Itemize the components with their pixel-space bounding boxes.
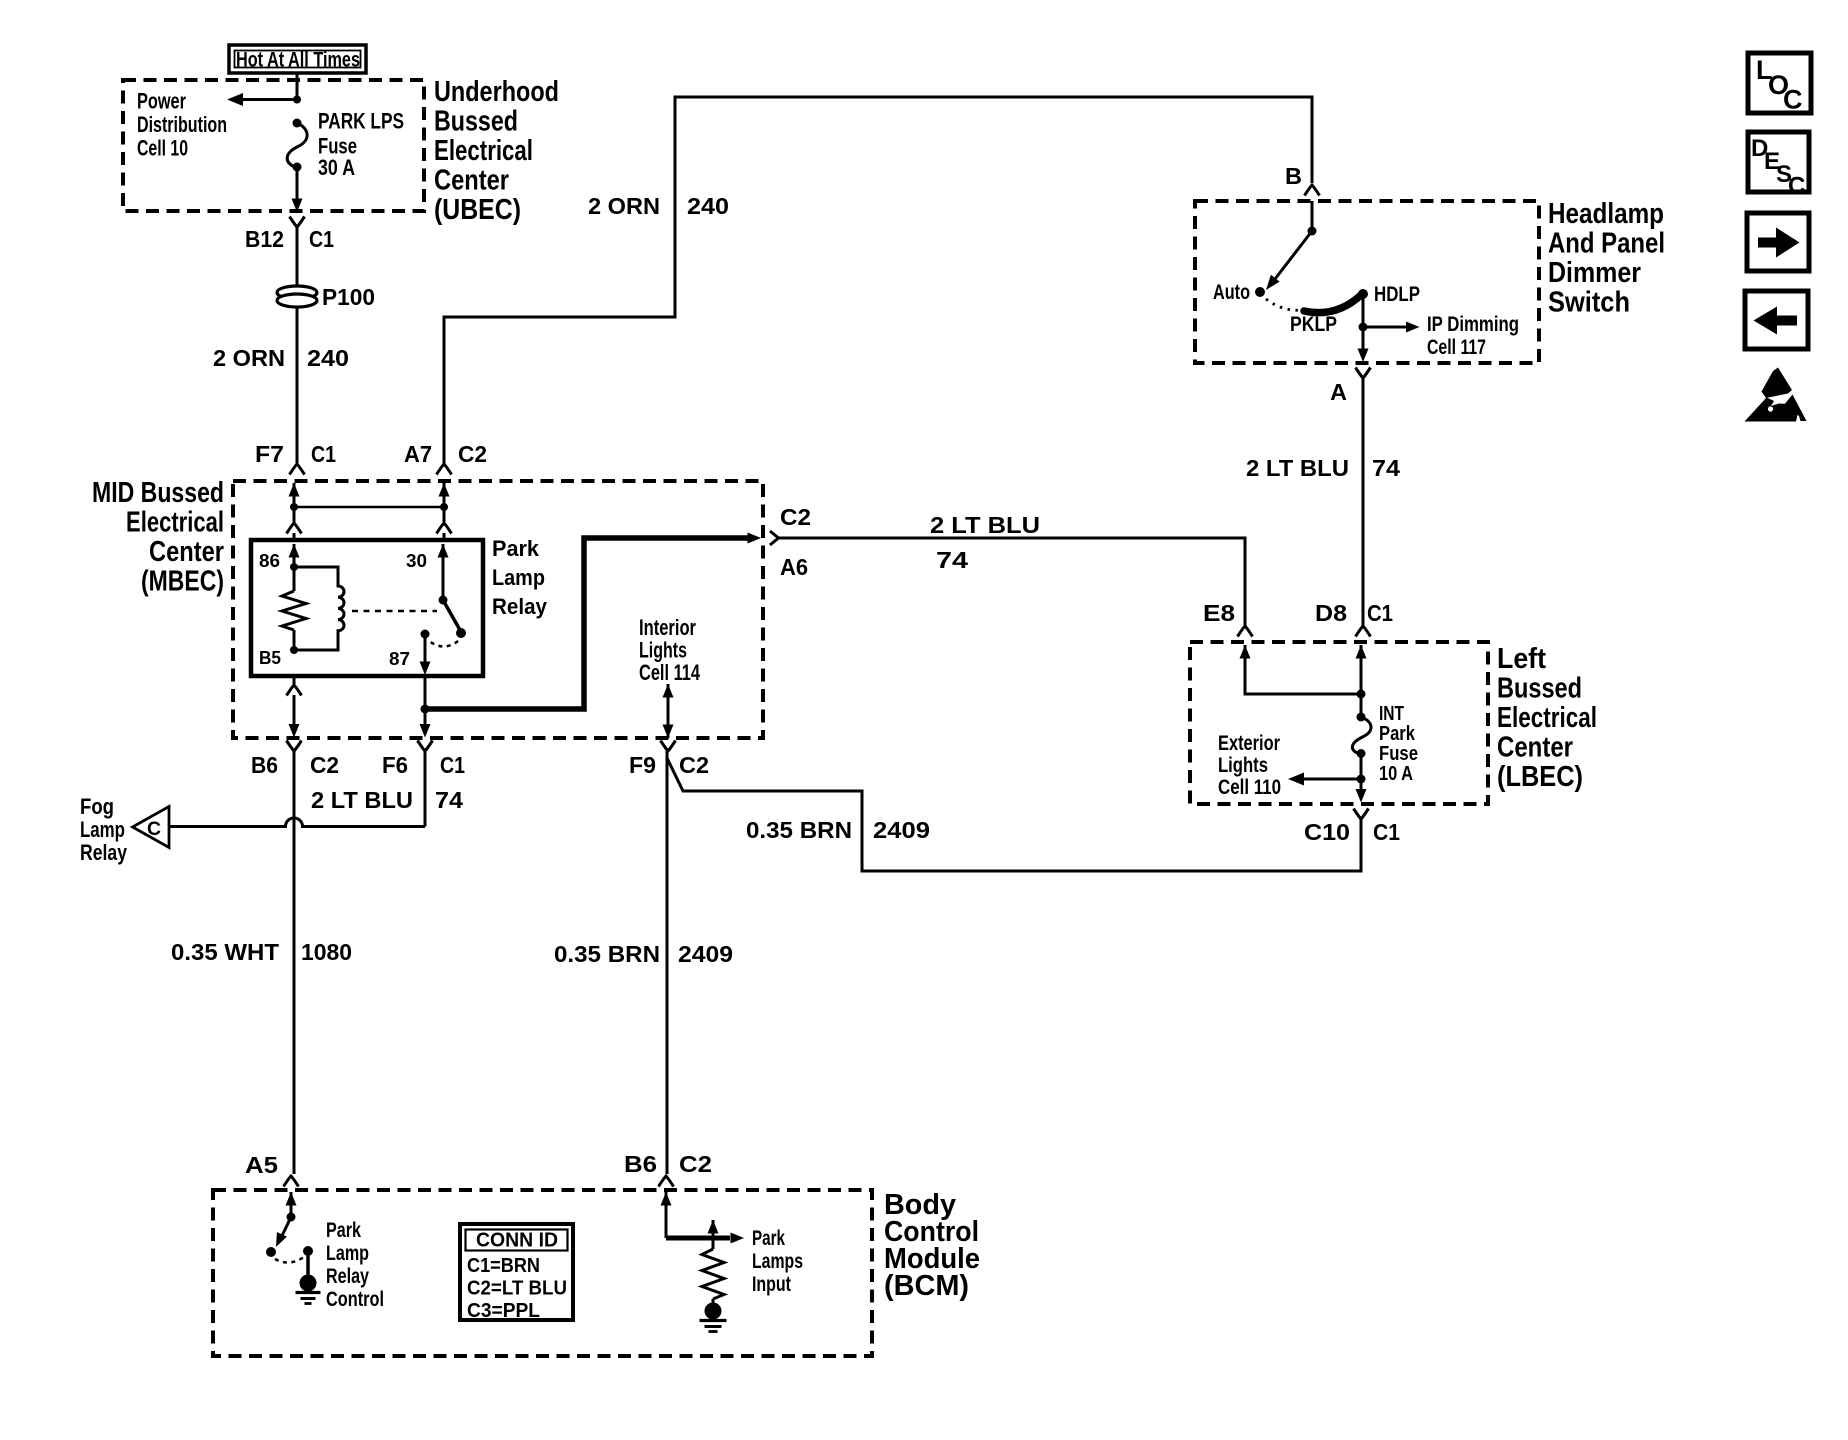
svg-text:Lamps: Lamps bbox=[752, 1250, 803, 1273]
svg-text:Hot At All Times: Hot At All Times bbox=[236, 49, 360, 72]
wire: 87 to MBEC exit bbox=[424, 676, 427, 727]
svg-text:C1: C1 bbox=[1373, 819, 1400, 845]
switch: relay armature bbox=[439, 596, 448, 605]
node: exterior lights junction bbox=[1357, 775, 1366, 784]
svg-text:Electrical: Electrical bbox=[126, 507, 224, 539]
svg-text:30: 30 bbox=[406, 550, 427, 571]
fuse: INT Park Fuse 10 A bbox=[1357, 713, 1366, 722]
node: E8/D8 junction bbox=[1357, 690, 1366, 699]
node: bus left bbox=[290, 503, 298, 511]
icon: ESD warning triangle bbox=[1762, 368, 1793, 399]
svg-text:Park: Park bbox=[492, 536, 540, 561]
svg-text:Distribution: Distribution bbox=[137, 112, 227, 137]
svg-text:240: 240 bbox=[687, 193, 729, 219]
wire: A7 entry to bus bbox=[439, 483, 450, 497]
wire: exit to C10 bbox=[1360, 753, 1363, 793]
svg-text:(BCM): (BCM) bbox=[884, 1270, 969, 1302]
node: bus right bbox=[440, 503, 448, 511]
node: switch pivot bbox=[1308, 227, 1317, 236]
connector F9/C2 below MBEC bbox=[661, 741, 676, 752]
wire: thick park lamps input feed bbox=[666, 1236, 730, 1241]
svg-text:Bussed: Bussed bbox=[1497, 673, 1582, 705]
svg-text:C1: C1 bbox=[309, 226, 334, 252]
svg-text:Relay: Relay bbox=[326, 1265, 369, 1288]
connector C10/C1 below LBEC bbox=[1354, 809, 1369, 820]
coil: relay coil winding bbox=[294, 567, 344, 650]
svg-text:A: A bbox=[1330, 379, 1347, 405]
terminal C: Fog Lamp Relay bbox=[133, 807, 170, 848]
svg-text:C2=LT BLU: C2=LT BLU bbox=[467, 1278, 567, 1300]
svg-text:Switch: Switch bbox=[1548, 287, 1630, 319]
icon: DESC button bbox=[1748, 132, 1809, 192]
svg-text:0.35 BRN: 0.35 BRN bbox=[746, 817, 852, 843]
wire: E8 entry bbox=[1240, 645, 1251, 659]
svg-text:30 A: 30 A bbox=[318, 155, 355, 180]
svg-text:B6: B6 bbox=[251, 752, 278, 778]
svg-text:Lights: Lights bbox=[639, 638, 687, 663]
splice P100 grommet bbox=[277, 286, 317, 299]
wire: F9 branch right 0.35 BRN 2409 to LBEC C10 bbox=[667, 758, 1361, 871]
svg-text:PKLP: PKLP bbox=[1290, 313, 1337, 336]
connector B6/C2 below MBEC bbox=[287, 741, 302, 752]
pin 86 bbox=[289, 544, 300, 558]
svg-text:Relay: Relay bbox=[492, 594, 548, 619]
svg-text:Control: Control bbox=[326, 1288, 384, 1311]
svg-text:C2: C2 bbox=[310, 752, 339, 778]
svg-text:MID Bussed: MID Bussed bbox=[92, 477, 224, 509]
svg-text:Exterior: Exterior bbox=[1218, 732, 1280, 755]
svg-text:2 ORN: 2 ORN bbox=[588, 193, 660, 219]
wire: dashed throw arc BCM bbox=[275, 1257, 304, 1263]
node: IP dimming junction bbox=[1359, 323, 1368, 332]
ground: park lamps input ground bbox=[705, 1303, 722, 1320]
wire: dashed actuation link bbox=[352, 610, 437, 613]
svg-text:C10: C10 bbox=[1304, 819, 1350, 845]
connector D8/C1 into LBEC bbox=[1356, 626, 1371, 637]
switch: thick PKLP-HDLP arc bbox=[1304, 295, 1361, 313]
resistor: park lamps input pull bbox=[702, 1249, 724, 1299]
svg-text:Cell 117: Cell 117 bbox=[1427, 336, 1486, 359]
wire: arrow to IP Dimming Cell 117 bbox=[1363, 326, 1406, 329]
wire: F9 down 0.35 BRN 2409 to BCM B6 bbox=[666, 751, 669, 1174]
svg-text:2 ORN: 2 ORN bbox=[213, 345, 285, 371]
wire: junction to fuse bbox=[1360, 694, 1363, 717]
node: open contact bbox=[266, 1247, 276, 1257]
svg-text:E8: E8 bbox=[1203, 600, 1235, 626]
svg-text:Fog: Fog bbox=[80, 794, 114, 819]
node: 87 junction to interior lights feed bbox=[421, 705, 430, 714]
svg-text:A5: A5 bbox=[245, 1152, 278, 1178]
svg-text:74: 74 bbox=[1372, 455, 1400, 481]
svg-text:C2: C2 bbox=[458, 441, 487, 467]
arrow: park lamps input sense up bbox=[708, 1220, 719, 1234]
svg-text:2 LT BLU: 2 LT BLU bbox=[311, 787, 413, 813]
svg-text:Input: Input bbox=[752, 1273, 791, 1296]
svg-text:Dimmer: Dimmer bbox=[1548, 257, 1641, 289]
svg-text:B12: B12 bbox=[245, 226, 284, 252]
connector A5 into BCM bbox=[284, 1176, 299, 1187]
svg-text:2409: 2409 bbox=[678, 941, 733, 967]
box: Body Control Module (BCM) dashed bbox=[213, 1190, 872, 1356]
wire: exit to A bbox=[1358, 349, 1369, 363]
connector B6/C2 into BCM bbox=[659, 1176, 674, 1187]
svg-text:C2: C2 bbox=[780, 504, 811, 530]
svg-text:F6: F6 bbox=[382, 752, 408, 778]
svg-text:10 A: 10 A bbox=[1379, 762, 1413, 785]
svg-text:240: 240 bbox=[307, 345, 349, 371]
svg-text:87: 87 bbox=[389, 648, 410, 669]
ground: relay control ground bbox=[300, 1275, 317, 1292]
svg-text:86: 86 bbox=[259, 550, 280, 571]
wire: 2 LT BLU 74 to LBEC E8 bbox=[779, 538, 1246, 626]
arrow: Interior Lights Cell 114 double arrow bbox=[663, 684, 674, 698]
icon: back arrow button bbox=[1745, 291, 1808, 349]
resistor: relay coil suppression resistor bbox=[293, 567, 296, 591]
connector B into headlamp switch bbox=[1305, 185, 1320, 196]
wire: dotted arc Auto to PKLP bbox=[1266, 299, 1303, 310]
wire: UBEC branch 2 ORN 240 to headlamp switch B bbox=[444, 97, 1312, 464]
wire: B to switch pivot bbox=[1311, 201, 1314, 231]
svg-text:Electrical: Electrical bbox=[434, 135, 533, 167]
icon: forward arrow button bbox=[1747, 213, 1809, 271]
table: CONN ID bbox=[460, 1224, 573, 1320]
box: Left Bussed Electrical Center (LBEC) dashed bbox=[1190, 642, 1488, 804]
svg-text:IP Dimming: IP Dimming bbox=[1427, 313, 1519, 336]
svg-text:Center: Center bbox=[1497, 732, 1573, 764]
svg-text:A6: A6 bbox=[780, 554, 808, 580]
wire: 2 LT BLU 74 down to D8 bbox=[1362, 378, 1365, 626]
wire: HDLP down to junction bbox=[1362, 296, 1365, 353]
svg-text:Center: Center bbox=[434, 165, 509, 197]
connector A below switch bbox=[1356, 368, 1371, 379]
wire: B5 to MBEC exit bbox=[293, 676, 296, 684]
svg-text:Auto: Auto bbox=[1213, 281, 1250, 304]
svg-text:P100: P100 bbox=[322, 284, 375, 310]
svg-text:Lamp: Lamp bbox=[80, 817, 125, 842]
svg-text:CONN ID: CONN ID bbox=[476, 1230, 558, 1252]
label: Hot At All Times bbox=[229, 45, 366, 73]
svg-text:A7: A7 bbox=[404, 441, 432, 467]
box: Headlamp And Panel Dimmer Switch dashed bbox=[1195, 201, 1539, 363]
node: junction to Power Distribution bbox=[293, 96, 301, 104]
svg-text:Park: Park bbox=[326, 1219, 361, 1242]
svg-text:Power: Power bbox=[137, 89, 186, 114]
svg-text:Electrical: Electrical bbox=[1497, 702, 1597, 734]
svg-text:C1: C1 bbox=[311, 441, 336, 467]
svg-text:F7: F7 bbox=[255, 441, 284, 467]
wire: F6/C1 2 LT BLU 74 down bbox=[424, 751, 427, 827]
svg-text:0.35 WHT: 0.35 WHT bbox=[171, 939, 279, 965]
svg-text:F9: F9 bbox=[629, 752, 656, 778]
svg-text:PARK LPS: PARK LPS bbox=[318, 109, 404, 134]
switch: arm toward Auto bbox=[1275, 231, 1312, 279]
svg-text:(MBEC): (MBEC) bbox=[141, 566, 224, 598]
wire: to fog lamp relay with hop over B6 wire bbox=[169, 818, 425, 826]
wire: A5 entry bbox=[286, 1192, 297, 1206]
connector B12/C1 bbox=[290, 217, 305, 228]
svg-text:Bussed: Bussed bbox=[434, 106, 518, 138]
svg-text:Interior: Interior bbox=[639, 615, 696, 640]
svg-text:Left: Left bbox=[1497, 643, 1546, 675]
svg-text:Lamp: Lamp bbox=[326, 1242, 369, 1265]
svg-text:Underhood: Underhood bbox=[434, 76, 559, 108]
wire: Hot At All Times to junction bbox=[296, 73, 299, 101]
wire: B6/C2 0.35 WHT 1080 down to BCM A5 bbox=[293, 751, 296, 1174]
svg-text:C2: C2 bbox=[679, 1151, 712, 1177]
svg-text:HDLP: HDLP bbox=[1374, 283, 1420, 306]
svg-text:C1: C1 bbox=[1367, 600, 1393, 626]
svg-text:Center: Center bbox=[149, 536, 224, 568]
wire: arrow to Exterior Lights Cell 110 bbox=[1302, 778, 1361, 781]
svg-text:0.35 BRN: 0.35 BRN bbox=[554, 941, 660, 967]
fuse: PARK LPS Fuse 30 A bbox=[293, 119, 302, 128]
wire: dashed throw arc bbox=[429, 641, 458, 647]
svg-text:And Panel: And Panel bbox=[1548, 228, 1665, 260]
svg-text:Lights: Lights bbox=[1218, 754, 1268, 777]
node: HDLP terminal bbox=[1358, 289, 1368, 299]
wire: C10 down to BRN net bbox=[1360, 819, 1363, 871]
pin 87 bbox=[421, 630, 430, 639]
pin 30 bbox=[438, 544, 449, 558]
box: Underhood Bussed Electrical Center (UBEC) dashed bbox=[123, 80, 424, 211]
wire: B6 entry bbox=[661, 1192, 672, 1206]
svg-text:C3=PPL: C3=PPL bbox=[467, 1300, 540, 1322]
wire: fuse to UBEC exit bbox=[296, 167, 299, 200]
svg-text:Cell 110: Cell 110 bbox=[1218, 776, 1281, 799]
svg-text:Relay: Relay bbox=[80, 840, 128, 865]
connector: internal MBEC right bbox=[437, 523, 452, 534]
wire: thick 2 LT BLU to C2/A6 bbox=[425, 538, 750, 709]
svg-text:B6: B6 bbox=[624, 1151, 657, 1177]
wire: B12 to P100 bbox=[296, 227, 299, 288]
svg-text:2 LT BLU: 2 LT BLU bbox=[1246, 455, 1349, 481]
connector C2/A6 out of MBEC bbox=[770, 531, 779, 545]
svg-text:C: C bbox=[147, 818, 161, 840]
svg-text:C: C bbox=[1788, 173, 1805, 200]
wire: 2 ORN 240 down to F7 bbox=[296, 306, 299, 464]
wire: arrow to Power Distribution Cell 10 bbox=[243, 98, 297, 101]
svg-text:Cell 10: Cell 10 bbox=[137, 136, 188, 161]
svg-text:1080: 1080 bbox=[301, 939, 352, 965]
svg-text:(UBEC): (UBEC) bbox=[434, 194, 521, 226]
relay: Park Lamp Relay box bbox=[251, 540, 483, 676]
switch: Park Lamp Relay Control driver bbox=[287, 1213, 296, 1222]
svg-text:(LBEC): (LBEC) bbox=[1497, 761, 1583, 793]
svg-text:2 LT BLU: 2 LT BLU bbox=[930, 512, 1040, 538]
svg-text:Lamp: Lamp bbox=[492, 565, 545, 590]
pin B5 bbox=[290, 646, 298, 654]
connector A7/C2 into MBEC bbox=[437, 464, 452, 475]
svg-text:B: B bbox=[1285, 163, 1302, 189]
wire: contact to ground bbox=[306, 1251, 310, 1276]
svg-text:C1: C1 bbox=[440, 752, 465, 778]
box: MID Bussed Electrical Center (MBEC) dashed bbox=[233, 481, 763, 738]
svg-text:D8: D8 bbox=[1315, 600, 1347, 626]
svg-text:Cell 114: Cell 114 bbox=[639, 660, 701, 685]
svg-text:C: C bbox=[1783, 85, 1803, 115]
connector F7/C1 into MBEC bbox=[290, 464, 305, 475]
node: Auto terminal bbox=[1255, 287, 1265, 297]
wire: F7 entry to bus bbox=[289, 483, 300, 497]
svg-text:C1=BRN: C1=BRN bbox=[467, 1255, 540, 1277]
svg-text:Headlamp: Headlamp bbox=[1548, 198, 1664, 230]
connector: internal MBEC left bbox=[287, 523, 302, 534]
svg-text:2409: 2409 bbox=[873, 817, 930, 843]
svg-text:B5: B5 bbox=[259, 647, 281, 668]
icon: LOC button bbox=[1748, 53, 1811, 113]
node: ground contact bbox=[303, 1246, 313, 1256]
svg-text:C2: C2 bbox=[679, 752, 709, 778]
wire: D8 entry bbox=[1356, 645, 1367, 659]
svg-text:74: 74 bbox=[435, 787, 463, 813]
svg-text:Park: Park bbox=[752, 1227, 785, 1250]
connector F6/C1 below MBEC bbox=[418, 741, 433, 752]
connector E8 into LBEC bbox=[1238, 626, 1253, 637]
wire: internal bus bbox=[294, 506, 444, 509]
svg-text:74: 74 bbox=[936, 547, 968, 573]
